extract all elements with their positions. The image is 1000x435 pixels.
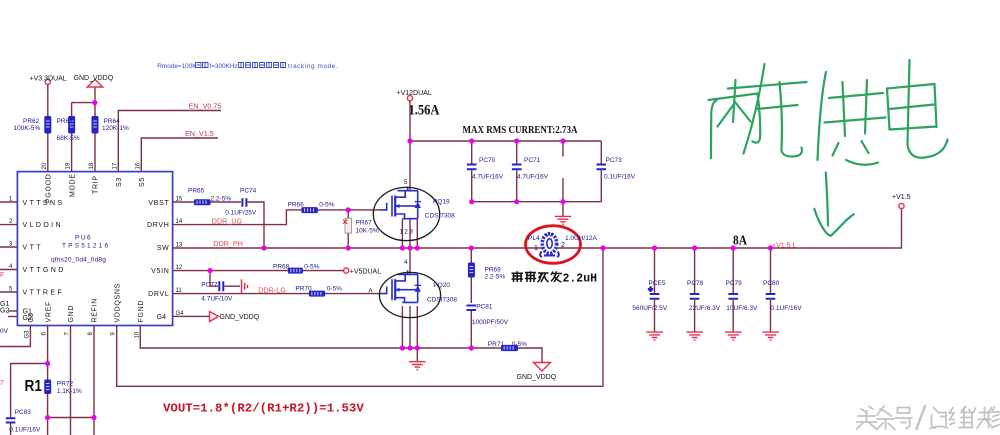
inductor PL4 toroid	[540, 233, 559, 257]
svg-text:16: 16	[135, 162, 141, 169]
wire PC74 to SW node	[248, 202, 265, 248]
svg-text:13: 13	[176, 243, 183, 249]
svg-text:22UF/6.3V: 22UF/6.3V	[689, 305, 721, 312]
svg-text:PR64: PR64	[104, 118, 121, 125]
svg-text:TPS51216: TPS51216	[62, 243, 110, 250]
svg-text:1: 1	[534, 245, 538, 252]
power GND_VDDQ up triangle	[87, 80, 103, 88]
svg-text:f=300KHz.: f=300KHz.	[210, 63, 240, 70]
svg-text:G3: G3	[28, 313, 35, 322]
resistor PR64	[92, 116, 99, 134]
svg-text:17: 17	[112, 162, 118, 169]
transistor PQ20 MOSFET	[381, 270, 422, 302]
svg-text:PC83: PC83	[15, 409, 32, 416]
wire pin13 SW DDR_PH	[173, 247, 542, 249]
svg-text:0.1UF/16V: 0.1UF/16V	[604, 173, 636, 180]
svg-text:G4: G4	[157, 314, 166, 321]
svg-text:11: 11	[176, 288, 183, 294]
svg-text:18: 18	[89, 162, 95, 169]
wire PC77 to chassis gnd	[225, 285, 241, 287]
wire PR66 to gate PQ19	[318, 209, 381, 211]
power +V3.3DUAL terminal	[45, 79, 50, 84]
svg-text:1 2 3: 1 2 3	[400, 230, 414, 236]
svg-text:EN_V1.5: EN_V1.5	[185, 129, 214, 138]
wire PR71 to GND_VDDQ	[518, 348, 542, 363]
junction SW PQ19 s3	[415, 245, 420, 250]
svg-text:SW: SW	[157, 245, 170, 252]
wire PR67 top	[347, 210, 349, 218]
wire +V3.3DUAL to PR62 to pin20	[47, 84, 49, 171]
wire V12 top rail	[410, 140, 601, 142]
green handwriting char 供	[818, 72, 886, 160]
svg-text:DDR_PH: DDR_PH	[213, 239, 243, 248]
wire PR69 column	[470, 248, 472, 303]
svg-text:19: 19	[66, 162, 72, 169]
svg-text:+V12DUAL: +V12DUAL	[397, 90, 432, 97]
svg-text:S3: S3	[116, 177, 123, 187]
wire PR67 bottom	[347, 233, 349, 248]
svg-text:R1: R1	[25, 378, 43, 395]
svg-text:G2: G2	[0, 308, 9, 315]
power +V5DUAL terminal	[344, 268, 349, 273]
svg-text:PQ20: PQ20	[433, 282, 450, 289]
svg-text:100K-5%: 100K-5%	[14, 125, 41, 132]
svg-text:0.1UF/16V: 0.1UF/16V	[771, 305, 803, 312]
svg-text:4.7UF/16V: 4.7UF/16V	[472, 173, 504, 180]
svg-text:CDSI7308: CDSI7308	[425, 212, 455, 219]
junction VOUT sense	[600, 245, 605, 250]
junction top rail PC70	[469, 138, 474, 143]
junction bottom rail PC71	[514, 199, 519, 204]
junction SW PR67	[346, 245, 351, 250]
wire REFIN row	[48, 417, 94, 419]
svg-text:REFIN: REFIN	[92, 298, 99, 323]
junction VOUT PC79	[731, 245, 736, 250]
wire VREF branch to PC83	[11, 364, 48, 418]
wire pin4 VTTGND	[0, 269, 17, 271]
svg-text:GND_VDDQ: GND_VDDQ	[517, 374, 557, 381]
junction bottom rail PC70	[469, 199, 474, 204]
svg-text:2.2-5%: 2.2-5%	[485, 274, 506, 281]
svg-text:PU6: PU6	[75, 235, 92, 242]
svg-text:1.0UH/12A: 1.0UH/12A	[565, 235, 597, 242]
svg-text:PC70: PC70	[479, 157, 496, 164]
junction V12 rail	[407, 138, 412, 143]
watermark 头条号 / 迅维快修	[857, 406, 1000, 431]
svg-text:PR66: PR66	[288, 202, 305, 209]
junction GND_VDDQ/MODE	[92, 100, 97, 105]
svg-text:7: 7	[0, 380, 4, 387]
junction VOUT PC78	[692, 245, 697, 250]
wire PC72 column stubs	[562, 141, 564, 202]
capacitor PC73	[597, 165, 607, 170]
junction REFIN row	[91, 415, 96, 420]
capacitor PC80	[766, 294, 776, 299]
svg-text:PC80: PC80	[763, 280, 780, 287]
svg-text:PC78: PC78	[687, 280, 704, 287]
inductor PL4 red circle annotation	[526, 226, 581, 264]
svg-text:4.7UF/10V: 4.7UF/10V	[201, 295, 233, 302]
svg-text:MODE: MODE	[69, 173, 76, 197]
wire PC71 column	[516, 141, 518, 202]
note CJK 以及放电模式为 mimic	[239, 63, 286, 68]
svg-text:VREF: VREF	[45, 301, 52, 322]
wire pin2 VLDOIN	[0, 224, 17, 226]
junction SW PQ19 s1	[400, 245, 405, 250]
wire G1 stub	[8, 310, 17, 312]
svg-text:PR62: PR62	[23, 118, 40, 125]
resistor PR68	[288, 268, 303, 274]
svg-text:0-5%: 0-5%	[319, 202, 334, 209]
svg-text:1.56A: 1.56A	[409, 103, 440, 119]
resistor PR67 open style	[343, 218, 351, 233]
ground earth PC79	[725, 332, 742, 340]
wire PC81 to FGND	[470, 311, 472, 348]
power +V12DUAL terminal	[407, 96, 412, 101]
svg-text:Rmode=100K.: Rmode=100K.	[157, 63, 198, 70]
green handwriting char 存	[728, 64, 807, 157]
svg-text:0-5%: 0-5%	[304, 263, 319, 270]
junction SW PR69	[469, 245, 474, 250]
svg-text:PR67: PR67	[356, 220, 373, 227]
svg-text:2.2uH: 2.2uH	[563, 272, 598, 285]
wire PC80 column	[770, 248, 772, 332]
wire PQ19 sources to SW	[402, 220, 417, 249]
svg-text:0-5%: 0-5%	[327, 285, 342, 292]
resistor PR66	[301, 207, 318, 213]
wire GND_VDDQ branch to PR63 pin19	[72, 103, 95, 172]
svg-text:PC79: PC79	[726, 280, 743, 287]
resistor PR71	[501, 345, 518, 351]
text 需要改成 CJK strokes	[512, 271, 563, 282]
wire gnd stem caps	[562, 202, 564, 217]
capacitor PC83	[6, 418, 16, 435]
power +V1.5 terminal	[899, 203, 904, 208]
junction SW PQ19 s2	[407, 245, 412, 250]
resistor PR63	[68, 116, 75, 134]
wire pin9 VDDQSNS sense	[117, 248, 603, 386]
wire PQ20 drain	[409, 248, 411, 274]
svg-text:MAX RMS CURRENT:2.73A: MAX RMS CURRENT:2.73A	[463, 125, 579, 136]
svg-text:VDDQSNS: VDDQSNS	[114, 283, 121, 323]
svg-text:DDR-LG: DDR-LG	[258, 286, 286, 295]
svg-text:PC71: PC71	[524, 157, 541, 164]
wire PCE5 column	[654, 248, 656, 332]
junction VOUT PCE5	[652, 245, 657, 250]
svg-text:0-5%: 0-5%	[512, 341, 527, 348]
capacitor PC70	[467, 165, 477, 170]
ground GND_VDDQ triangle PR71	[534, 363, 551, 372]
svg-text:V5IN: V5IN	[151, 268, 169, 275]
svg-text:VTTREF: VTTREF	[23, 290, 65, 297]
svg-text:GND_VDDQ: GND_VDDQ	[74, 75, 114, 82]
ground earth below cap bank	[555, 216, 572, 224]
svg-text:VTTSNS: VTTSNS	[23, 200, 65, 207]
svg-text:120K-1%: 120K-1%	[102, 125, 129, 132]
wire PC70 column	[471, 141, 473, 202]
svg-text:+: +	[649, 287, 653, 294]
capacitor PC79	[728, 294, 738, 299]
svg-text:TRIP: TRIP	[93, 175, 100, 194]
svg-text:+V3.3DUAL: +V3.3DUAL	[30, 75, 67, 82]
capacitor PC71	[512, 165, 522, 170]
junction FGND PQ20 s2	[407, 345, 412, 350]
wire GND_VDDQ stem to PR64 pin18	[94, 88, 96, 172]
wire pin15 VBST	[173, 201, 194, 203]
wire pin8 REFIN column	[93, 326, 95, 435]
svg-text:G3: G3	[24, 330, 30, 339]
transistor PQ19 MOSFET	[381, 187, 422, 219]
capacitor PC74	[242, 198, 246, 206]
green handwriting char 内	[709, 80, 761, 158]
svg-text:PC74: PC74	[240, 187, 257, 194]
ground earth below PQ20	[409, 362, 426, 370]
transistor PQ19 circle	[373, 187, 439, 240]
wire PQ20 gnd stem	[416, 348, 418, 362]
svg-text:DRVL: DRVL	[148, 291, 169, 298]
svg-text:PR69: PR69	[485, 266, 502, 273]
svg-text:VTTGND: VTTGND	[23, 267, 66, 274]
svg-text:10K-5%: 10K-5%	[356, 228, 379, 235]
svg-text:PR72: PR72	[57, 380, 74, 387]
svg-text:68K-5%: 68K-5%	[57, 135, 80, 142]
svg-text:PC73: PC73	[606, 157, 623, 164]
junction FGND PQ20 s3	[415, 345, 420, 350]
ground chassis PC77	[242, 279, 248, 293]
wire pin10 FGND row	[140, 326, 501, 349]
wire pin11 DRVL DDR-LG	[173, 293, 309, 295]
svg-text:14: 14	[176, 219, 183, 225]
svg-text:+V5DUAL: +V5DUAL	[350, 268, 381, 275]
resistor PR72	[44, 380, 51, 395]
wire PR65 to PC74	[211, 201, 242, 203]
svg-text:15: 15	[176, 197, 183, 203]
svg-text:560UF/2.5V: 560UF/2.5V	[632, 305, 667, 312]
wire EN_V0.75 pin17	[118, 111, 221, 172]
svg-text:tracking mode.: tracking mode.	[288, 63, 338, 70]
transistor PQ20 circle	[379, 272, 440, 317]
svg-text:2: 2	[561, 242, 565, 249]
svg-text:EN_V0.75: EN_V0.75	[189, 102, 222, 111]
note CJK 设定 mimic	[196, 63, 209, 68]
svg-text:F: F	[0, 272, 4, 279]
green handwriting char 电	[846, 60, 948, 165]
wire EN_V1.5 pin16	[141, 138, 218, 172]
svg-text:DRVH: DRVH	[147, 222, 170, 229]
wire V5IN branch to PC77	[210, 271, 218, 287]
svg-text:2.2-5%: 2.2-5%	[211, 195, 232, 202]
svg-text:VBST: VBST	[148, 200, 169, 207]
svg-text:FGND: FGND	[138, 300, 145, 323]
svg-text:1000PF/50V: 1000PF/50V	[472, 319, 509, 326]
svg-text:PR70: PR70	[295, 285, 312, 292]
ground earth PC80	[762, 332, 779, 340]
wire G2 stub	[8, 316, 17, 318]
junction PR66 gate node	[346, 207, 351, 212]
junction V5IN PC77	[207, 268, 212, 273]
ground earth PC78	[686, 332, 703, 340]
svg-text:PR68: PR68	[273, 263, 290, 270]
junction FGND PQ20 s1	[400, 345, 405, 350]
wire caps bottom rail	[472, 201, 602, 203]
wire PC79 column	[732, 248, 734, 332]
svg-text:0V: 0V	[0, 328, 9, 335]
wire pin6 VREF column	[47, 326, 49, 435]
svg-text:PGOOD: PGOOD	[46, 173, 53, 203]
svg-text:PL4: PL4	[528, 235, 540, 242]
svg-text:PC77: PC77	[201, 281, 218, 288]
capacitor PC81	[467, 306, 477, 311]
junction VOUT PC80	[768, 245, 773, 250]
resistor PR65	[194, 199, 211, 205]
wire pin3 VTT	[0, 246, 17, 248]
wire +V12DUAL down	[409, 101, 411, 190]
wire pin12 V5IN	[173, 270, 344, 272]
wire PL4 out +V1.5 rail	[557, 209, 902, 249]
svg-text:10: 10	[134, 331, 140, 338]
svg-text:1.1K-1%: 1.1K-1%	[57, 388, 82, 395]
svg-text:GND: GND	[68, 305, 75, 323]
wire PC78 column	[694, 248, 696, 332]
svg-text:VTT: VTT	[23, 245, 43, 252]
flag GND_VDDQ at G4	[210, 312, 219, 322]
wire G3 to left edge	[0, 326, 30, 347]
green arrow down	[814, 173, 854, 236]
svg-text:CDSI7308: CDSI7308	[427, 296, 457, 303]
wire PQ20 sources to FGND	[402, 306, 417, 348]
svg-text:+V1.5: +V1.5	[892, 194, 911, 201]
wire G4 to flag	[173, 315, 210, 317]
ground earth PCE5	[646, 332, 663, 340]
svg-text:PQ19: PQ19	[433, 198, 450, 205]
wire pin14 DRVH DDR_UG	[173, 210, 302, 225]
wire pin5 VTTREF	[0, 291, 17, 293]
svg-text:G4: G4	[176, 311, 185, 317]
svg-text:12: 12	[176, 265, 183, 271]
svg-text:0.1UF/16V: 0.1UF/16V	[9, 426, 41, 433]
svg-text:DDR_UG: DDR_UG	[212, 216, 243, 225]
svg-text:20: 20	[42, 162, 48, 169]
capacitor PC77	[219, 281, 223, 291]
resistor PR70	[309, 291, 325, 297]
wire pin1 VTTSNS	[0, 201, 17, 203]
junction VREF row	[45, 415, 50, 420]
svg-text:GND_VDDQ: GND_VDDQ	[220, 314, 260, 321]
resistor PR69	[468, 263, 475, 278]
svg-text:S5: S5	[139, 177, 146, 187]
svg-text:PR71: PR71	[488, 341, 505, 348]
capacitor PCE5 electrolytic	[649, 287, 660, 299]
junction bottom rail gnd	[560, 199, 565, 204]
PARTS	[6, 79, 904, 435]
IC PU6 TPS51216 body	[17, 172, 172, 326]
ANNOT	[157, 60, 1000, 431]
svg-text:qfns20_0d4_0d8g: qfns20_0d4_0d8g	[51, 257, 106, 264]
junction top rail PC71	[514, 138, 519, 143]
wire pin7 GND column	[70, 326, 72, 435]
wire PR70 to gate PQ20	[325, 293, 381, 295]
svg-text:+V1.5 L: +V1.5 L	[772, 242, 796, 249]
svg-text:PCE5: PCE5	[649, 280, 666, 287]
svg-text:10UF/6.3V: 10UF/6.3V	[726, 305, 758, 312]
svg-text:4.7UF/16V: 4.7UF/16V	[517, 173, 549, 180]
junction FGND PR69	[469, 345, 474, 350]
junction SW PC74	[261, 245, 266, 250]
junction top rail PC72	[560, 138, 565, 143]
svg-text:VLDOIN: VLDOIN	[23, 222, 63, 229]
svg-text:A: A	[369, 289, 373, 295]
wire PC73 column	[600, 141, 602, 202]
svg-text:PR63: PR63	[57, 118, 74, 125]
capacitor PC78	[690, 294, 700, 299]
resistor PR62	[44, 116, 51, 134]
svg-text:8A: 8A	[733, 233, 747, 248]
junction VREF branch	[45, 361, 50, 366]
svg-text:VOUT=1.8*(R2/(R1+R2))=1.53V: VOUT=1.8*(R2/(R1+R2))=1.53V	[163, 401, 364, 415]
svg-text:PR65: PR65	[188, 187, 205, 194]
svg-text:PC81: PC81	[476, 304, 493, 311]
